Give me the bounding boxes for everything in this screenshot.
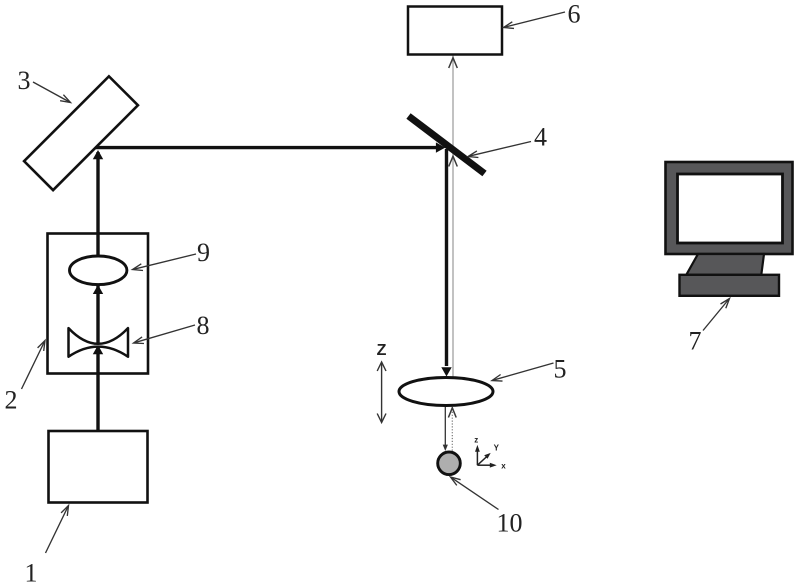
svg-text:2: 2 (5, 386, 18, 415)
svg-text:x: x (501, 462, 506, 471)
svg-text:Z: Z (377, 342, 387, 359)
svg-text:4: 4 (534, 123, 547, 152)
svg-text:10: 10 (497, 509, 523, 538)
svg-text:1: 1 (25, 559, 38, 587)
svg-text:9: 9 (197, 238, 210, 267)
svg-text:8: 8 (197, 311, 210, 340)
svg-text:3: 3 (18, 66, 31, 95)
svg-text:5: 5 (554, 354, 567, 383)
svg-text:Y: Y (494, 444, 500, 453)
svg-text:z: z (474, 436, 478, 445)
svg-text:6: 6 (568, 0, 581, 29)
svg-text:7: 7 (689, 326, 702, 355)
